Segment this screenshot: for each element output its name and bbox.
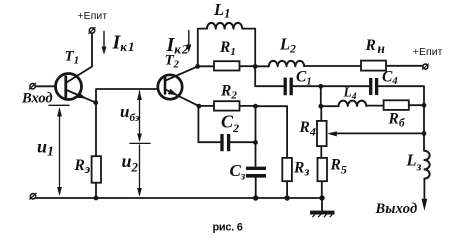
svg-text:Rэ: Rэ bbox=[74, 157, 91, 176]
svg-text:Lз: Lз bbox=[406, 151, 422, 174]
svg-text:R2: R2 bbox=[220, 82, 237, 101]
svg-text:+Епит: +Епит bbox=[413, 47, 443, 58]
svg-text:R4: R4 bbox=[299, 119, 316, 138]
svg-text:Rб: Rб bbox=[388, 111, 406, 130]
svg-text:Rз: Rз bbox=[293, 159, 309, 178]
svg-text:L2: L2 bbox=[279, 35, 296, 56]
svg-text:C1: C1 bbox=[296, 69, 312, 88]
svg-text:Rн: Rн bbox=[365, 37, 386, 56]
svg-text:L4: L4 bbox=[343, 85, 357, 103]
svg-text:C2: C2 bbox=[221, 112, 239, 136]
svg-text:u1: u1 bbox=[37, 137, 54, 160]
svg-text:R5: R5 bbox=[330, 156, 347, 176]
svg-text:рис. 6: рис. 6 bbox=[213, 221, 243, 233]
svg-text:Iк1: Iк1 bbox=[112, 32, 136, 54]
svg-text:u2: u2 bbox=[122, 151, 139, 174]
svg-text:R1: R1 bbox=[219, 39, 236, 58]
svg-text:Вход: Вход bbox=[21, 90, 53, 106]
svg-text:+Епит: +Епит bbox=[78, 11, 108, 22]
svg-text:C4: C4 bbox=[382, 68, 398, 87]
svg-text:L1: L1 bbox=[213, 0, 230, 21]
svg-text:T1: T1 bbox=[65, 48, 80, 66]
svg-text:uбэ: uбэ bbox=[120, 102, 140, 124]
svg-text:Cз: Cз bbox=[230, 161, 246, 182]
svg-text:Выход: Выход bbox=[375, 201, 418, 217]
